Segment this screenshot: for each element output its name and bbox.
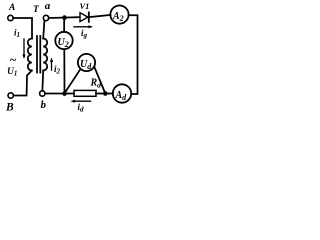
arrow id (load current, pointing left) (71, 100, 91, 103)
terminal a (43, 15, 48, 20)
voltmeter U2 (55, 32, 72, 49)
node right of resistor (103, 91, 108, 96)
wire Ud left lead (65, 69, 81, 93)
wire Ad left to node (105, 93, 113, 95)
wire b to node (45, 93, 65, 95)
ammeter Ad (113, 84, 131, 102)
diode V1 (80, 13, 88, 22)
wire diode to A2 (90, 15, 110, 17)
voltmeter Ud (78, 54, 95, 71)
ammeter A2 (110, 6, 128, 24)
svg-text:a: a (45, 0, 51, 12)
secondary winding L2 (43, 39, 47, 71)
resistor Rd (74, 90, 96, 96)
primary winding L1 (28, 39, 32, 71)
svg-text:~: ~ (10, 53, 17, 67)
svg-text:B: B (5, 101, 14, 113)
transformer core (37, 36, 40, 73)
arrow ig (diode current) (74, 25, 93, 28)
node left of resistor (62, 91, 67, 96)
svg-text:b: b (41, 99, 47, 111)
svg-text:A: A (8, 3, 15, 13)
wire secondary top to terminal a (43, 21, 44, 39)
terminal B (8, 93, 13, 98)
terminal A (8, 15, 13, 20)
wire a to diode (49, 16, 80, 19)
wire secondary bottom to b (41, 71, 44, 91)
wire A2 to right corner down (129, 15, 138, 94)
wire node left to resistor (65, 93, 75, 95)
svg-text:U1: U1 (7, 67, 17, 78)
svg-text:V1: V1 (80, 1, 90, 11)
arrow i2 (50, 58, 53, 71)
wire U2 top lead (63, 19, 65, 33)
arrow i1 (22, 39, 25, 59)
wire A to primary top (13, 18, 32, 39)
wire U2 bottom lead (63, 49, 65, 93)
wire primary bottom to terminal B (13, 71, 31, 96)
wire resistor to node (96, 93, 105, 95)
node junction top (62, 15, 67, 20)
terminal b (40, 91, 45, 96)
wire Ud right lead (94, 67, 105, 93)
